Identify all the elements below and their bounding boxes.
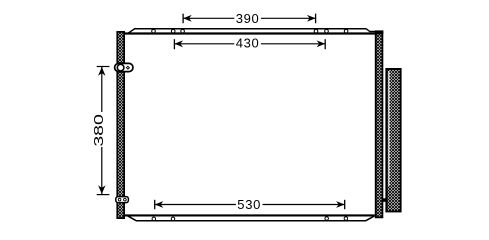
svg-text:530: 530: [237, 197, 261, 212]
svg-text:390: 390: [236, 11, 260, 26]
svg-text:430: 430: [236, 35, 260, 50]
svg-text:380: 380: [91, 114, 106, 147]
